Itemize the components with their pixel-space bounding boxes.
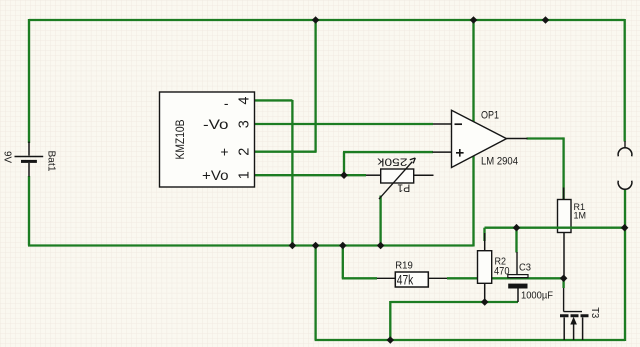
svg-text:OP1: OP1 xyxy=(481,110,499,122)
svg-text:Bat1: Bat1 xyxy=(46,151,57,172)
svg-text:3: 3 xyxy=(237,120,253,128)
svg-text:9V: 9V xyxy=(1,151,12,163)
wire pin3 to op-amp minus xyxy=(255,123,433,125)
wire pin1 horizontal xyxy=(255,174,344,176)
wire P1 wiper vertical xyxy=(379,196,381,246)
node C3 top xyxy=(513,224,521,232)
node A pin1 plus-input P1 xyxy=(340,171,348,179)
svg-text:250k: 250k xyxy=(377,156,408,168)
node R2 bottom xyxy=(481,298,489,306)
wire gnd vertical to bus xyxy=(389,301,391,340)
connector bottom half xyxy=(618,181,632,190)
wire pin4 vertical to bus xyxy=(291,100,293,246)
svg-text:1M: 1M xyxy=(574,211,587,221)
wire right vertical upper xyxy=(624,19,626,142)
wire R19 left xyxy=(342,277,377,279)
wire C3 top lead xyxy=(515,228,517,253)
resistor R1 xyxy=(558,188,587,233)
wire op-amp plus horizontal xyxy=(343,151,433,153)
node top rail right xyxy=(542,16,550,24)
node bus R19 xyxy=(339,242,347,250)
potentiometer P1 xyxy=(366,156,434,200)
node bus P1 wiper xyxy=(377,242,385,250)
svg-text:4: 4 xyxy=(237,97,253,105)
wire pin2 horizontal xyxy=(255,151,317,153)
wire battery top vertical xyxy=(28,19,30,143)
wire right vertical mid xyxy=(624,190,626,228)
wire left vertical to bottom bus xyxy=(314,245,316,340)
svg-text:47k: 47k xyxy=(397,272,414,287)
wire output down to R1 xyxy=(562,137,564,199)
wire vertical behind op-amp xyxy=(472,20,474,247)
svg-text:LM 2904: LM 2904 xyxy=(481,156,518,168)
node feedback right xyxy=(621,224,629,232)
wire node B to T3 gate xyxy=(562,278,564,288)
svg-text:R19: R19 xyxy=(395,260,413,271)
op-amp OP1 xyxy=(433,110,528,168)
svg-text:KMZ10B: KMZ10B xyxy=(173,120,187,160)
resistor R2 xyxy=(478,233,510,302)
sensor KMZ10B xyxy=(160,92,255,187)
wire R19 right to node B xyxy=(447,277,564,279)
wire bottom bus left xyxy=(28,244,474,246)
wire node A vertical xyxy=(343,152,345,175)
svg-text:C3: C3 xyxy=(519,262,531,273)
svg-text:1000µF: 1000µF xyxy=(521,291,553,302)
wire right vertical lower xyxy=(624,228,626,341)
wire feedback rail over R1 xyxy=(485,227,625,229)
node top rail op-amp vertical xyxy=(470,16,478,24)
node B R1 T3 gate xyxy=(560,275,568,283)
node top rail pin2 xyxy=(312,16,320,24)
svg-text:P1: P1 xyxy=(397,182,410,194)
capacitor C3 xyxy=(508,252,553,302)
wire R2 top corner xyxy=(483,228,485,241)
connector top half xyxy=(618,141,632,156)
svg-text:2: 2 xyxy=(237,148,253,156)
svg-text:470: 470 xyxy=(494,265,510,277)
svg-text:+Vo: +Vo xyxy=(202,167,229,183)
wire top rail xyxy=(29,19,625,21)
wire R1 bottom lead xyxy=(563,233,565,279)
wire battery bottom vertical xyxy=(28,176,30,246)
svg-text:-: - xyxy=(224,95,229,111)
node bus pin4 xyxy=(289,242,297,250)
wire pin2 to top rail vertical xyxy=(314,19,316,152)
svg-text:-Vo: -Vo xyxy=(203,116,229,132)
wire op-amp output xyxy=(527,137,564,139)
wire pin4 horizontal xyxy=(255,99,292,101)
wire P1 left xyxy=(344,174,366,176)
resistor R19 xyxy=(377,260,447,287)
wire bottom bus xyxy=(315,339,625,341)
wire bus to R19 vertical xyxy=(342,245,344,279)
wire gnd horizontal R2 C3 xyxy=(390,301,518,303)
node bottom bus xyxy=(387,336,395,344)
node bus left vertical xyxy=(312,242,320,250)
svg-text:T3: T3 xyxy=(589,307,600,318)
transistor T3 xyxy=(560,288,600,340)
svg-text:1: 1 xyxy=(237,171,253,179)
svg-text:+: + xyxy=(220,144,228,160)
battery Bat1 xyxy=(1,142,56,177)
